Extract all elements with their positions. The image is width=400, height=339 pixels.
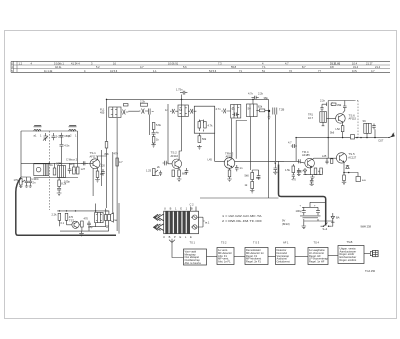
wire osc top (36, 163, 78, 168)
svg-text:AF 1: AF 1 (283, 241, 289, 245)
AGC box (194, 106, 214, 133)
svg-text:S2: S2 (179, 108, 183, 112)
svg-text:4.7: 4.7 (288, 141, 292, 145)
wire TS5 base line (312, 158, 337, 160)
svg-text:TS.2: TS.2 (171, 150, 178, 154)
svg-text:AF117: AF117 (90, 155, 98, 159)
capacitor C11 on top rail (176, 88, 187, 106)
resistor R9 inside (198, 122, 201, 129)
wire audio feed down (274, 115, 276, 162)
svg-text:2 = MW·ML·FM·TF·OM: 2 = MW·ML·FM·TF·OM (222, 219, 262, 223)
svg-text:S3: S3 (232, 107, 236, 111)
capacitor C3 150p (60, 133, 71, 140)
wire battery bottom (304, 215, 333, 223)
capacitor C25 (87, 221, 91, 227)
svg-text:Afst. 1e F1: Afst. 1e F1 (218, 259, 231, 263)
capacitor C18 (257, 173, 261, 180)
resistor R15 det load (245, 173, 254, 180)
diode D2 bias (297, 168, 307, 175)
svg-text:10.4: 10.4 (352, 61, 358, 65)
svg-text:50µ: 50µ (256, 176, 261, 180)
wire det to junction (256, 110, 268, 112)
svg-text:AF115: AF115 (349, 117, 357, 121)
filter FL1 block (100, 107, 121, 117)
svg-text:9.7k: 9.7k (352, 69, 358, 73)
svg-text:1 = LW·GW·GO·MF·TA: 1 = LW·GW·GO·MF·TA (222, 214, 262, 218)
resistor R20 TS5 (342, 173, 346, 185)
wire osc chain to line (58, 178, 60, 181)
block TS-B (338, 240, 364, 264)
capacitor C5 (57, 187, 61, 192)
svg-text:T.2B: T.2B (279, 108, 284, 112)
coupling parts TS4-TS5 (322, 154, 333, 164)
ground battery (302, 223, 307, 229)
resistor R1 (50, 163, 56, 175)
trimmer capacitor CT1 (191, 215, 203, 219)
oscillator coil block L4 (56, 161, 66, 177)
antenna (169, 239, 184, 258)
FM coil block S5 (308, 112, 327, 126)
resistor R29 TS4 input bias (285, 164, 295, 179)
svg-text:150p: 150p (64, 134, 70, 138)
svg-text:S4: S4 (248, 107, 252, 111)
block TS1 (184, 241, 207, 266)
vertical rail pair x124 (113, 118, 117, 231)
resistor R23 (58, 213, 61, 220)
svg-text:4.7n: 4.7n (248, 92, 254, 96)
dashed FM tuning link (354, 101, 358, 138)
svg-text:S2: S2 (56, 161, 60, 165)
svg-text:TS.1: TS.1 (90, 151, 97, 155)
wire FM top rail (328, 100, 354, 102)
svg-text:4.7: 4.7 (140, 65, 144, 69)
svg-text:470: 470 (69, 215, 74, 219)
gang vane 2 (170, 211, 173, 234)
svg-text:100µ: 100µ (296, 209, 302, 213)
potentiometer R28 (152, 165, 160, 176)
transistor TS1 (88, 151, 100, 169)
svg-text:1.1: 1.1 (153, 69, 157, 73)
transistor TS2 (171, 150, 182, 168)
resistor R21 TS4 bias (314, 168, 323, 175)
wire TS1 collector up (98, 99, 107, 208)
wire pot to heavy rail (19, 185, 32, 188)
svg-text:TS 1: TS 1 (190, 241, 196, 245)
svg-text:1.5k: 1.5k (285, 168, 291, 172)
svg-text:Geluidverst: Geluidverst (277, 259, 290, 263)
ferrite rod coil L1 (34, 126, 43, 138)
svg-text:10.7: 10.7 (308, 116, 314, 120)
transistor TS5 (336, 152, 356, 163)
svg-text:L52: L52 (336, 127, 341, 131)
wire TS1-TS2 (207, 256, 218, 258)
svg-text:Regel. eindtrst: Regel. eindtrst (340, 258, 357, 262)
table line 2 (11, 64, 390, 66)
resistor R25 (81, 221, 84, 227)
block TS4 (308, 241, 328, 265)
svg-text:L45: L45 (208, 158, 213, 162)
capacitor C26 collector (343, 101, 347, 113)
wire det line down (295, 138, 297, 162)
svg-text:82k: 82k (105, 152, 110, 156)
svg-text:S+2: S+2 (323, 227, 328, 231)
wire output top rail (57, 210, 108, 212)
svg-text:5 2: 5 2 (96, 65, 100, 69)
connector stub right of TS5 (355, 173, 366, 183)
svg-text:2.2k: 2.2k (52, 213, 58, 217)
resistor R16 det load2 (245, 180, 255, 194)
svg-text:10.06.91: 10.06.91 (168, 61, 179, 65)
svg-text:9WA 238: 9WA 238 (361, 224, 372, 228)
electrolytic C24 (314, 204, 320, 215)
output transformer T1 (95, 212, 103, 222)
svg-text:TS7: TS7 (69, 219, 74, 223)
svg-text:TCA 150: TCA 150 (365, 269, 376, 273)
wire AGC to TS3 base (215, 133, 226, 161)
diode D4 TS5 (346, 166, 349, 169)
svg-text:470: 470 (292, 178, 297, 182)
svg-text:2-22p: 2-22p (56, 134, 63, 138)
oscillator coil block L3 (31, 164, 49, 181)
svg-text:7.3: 7.3 (218, 61, 222, 65)
wire TSB to plug (364, 253, 370, 255)
capacitor C13 output (188, 109, 196, 114)
table row2 text (55, 65, 381, 69)
svg-text:T S 3: T S 3 (253, 241, 260, 245)
svg-text:1.75n: 1.75n (176, 88, 183, 92)
svg-text:TS-B: TS-B (347, 240, 353, 244)
gang vane 5 (183, 211, 186, 234)
svg-text:C.Wxxx 2: C.Wxxx 2 (66, 158, 78, 162)
wire TS2 emitter chain (178, 168, 180, 170)
parts table (11, 61, 390, 73)
svg-text:100p: 100p (64, 180, 70, 184)
wire TS1 base bias down (92, 168, 94, 196)
wire FM vertical feed (327, 101, 329, 159)
gang rotor chevron 2 (154, 224, 164, 230)
capacitor C34 audio feed ground (273, 163, 277, 175)
IF transformer S3 (231, 105, 241, 119)
svg-text:4.7n: 4.7n (216, 107, 222, 111)
svg-text:L27: L27 (81, 167, 86, 171)
resistor R12 TS2 emitter (178, 170, 187, 177)
connector cluster MP (351, 135, 362, 139)
svg-text:179: 179 (14, 178, 19, 182)
capacitor C17 TS3 (235, 165, 243, 171)
wire TS3-AF1 (268, 256, 276, 258)
heavy supply wire (279, 165, 326, 226)
svg-text:41 34 4: 41 34 4 (71, 61, 80, 65)
svg-text:D27: D27 (379, 138, 384, 142)
wire bottom ground rail (200, 197, 279, 199)
capacitor C35 S3 bottom (235, 113, 239, 117)
wire S4 secondary down (250, 117, 252, 170)
wire TS4-TSB (328, 255, 338, 257)
resistor R14 TS3 emitter (227, 168, 232, 181)
svg-text:8.7: 8.7 (302, 65, 306, 69)
wire S3 secondary down to TS3 (231, 119, 233, 159)
wire rail x168 (167, 104, 169, 150)
svg-text:41 5.6: 41 5.6 (110, 69, 118, 73)
ratio detector coil block S6 (363, 119, 372, 138)
svg-text:21 27: 21 27 (366, 61, 373, 65)
vertical rail pair left (101, 150, 103, 186)
block TS3 (245, 241, 268, 265)
svg-text:S6: S6 (363, 119, 367, 123)
svg-text:1.25: 1.25 (146, 169, 152, 173)
svg-text:1.2: 1.2 (19, 61, 23, 65)
svg-text:5 10kk 1: 5 10kk 1 (54, 61, 64, 65)
capacitor C9 (28, 179, 35, 185)
cluster R/C pair (139, 99, 154, 114)
svg-text:10µ: 10µ (88, 225, 93, 229)
resistor R19 TS6 emitter (336, 123, 344, 138)
svg-text:Regel. 1e HF: Regel. 1e HF (309, 259, 325, 263)
svg-text:AF117: AF117 (226, 155, 234, 159)
svg-text:39k: 39k (337, 103, 342, 107)
resistor R30 in speaker line (116, 158, 119, 166)
wire TS1 emitter (97, 168, 99, 171)
wire bottom signal line (21, 162, 88, 164)
capacitor C4 (68, 166, 77, 174)
table row1 text (19, 61, 374, 65)
table left column (11, 61, 17, 72)
wire TS3 to TS4 signal (235, 161, 305, 163)
svg-text:Afst. te beurta: Afst. te beurta (185, 261, 202, 265)
capacitor C16 TS2 (185, 168, 189, 175)
svg-text:5k6: 5k6 (245, 174, 250, 178)
svg-text:2.2k: 2.2k (258, 92, 264, 96)
capacitor C7 (101, 169, 105, 176)
svg-text:U B 1 E 1 B: U B 1 E 1 B (164, 207, 194, 211)
node dots rail (59, 210, 95, 212)
gang vane 3 (174, 211, 177, 234)
coupling capacitor C6 (81, 161, 88, 165)
svg-text:C 2: C 2 (190, 203, 195, 207)
ground TS1 emitter (95, 178, 100, 183)
IF transformer S2 (178, 105, 188, 116)
wire vertical rail x149.5 (149, 115, 151, 136)
svg-text:AF185: AF185 (302, 153, 310, 157)
wire output bottom rail (60, 221, 109, 232)
wire pot top connections (21, 177, 31, 179)
svg-text:U B P E L E: U B P E L E (163, 235, 193, 239)
svg-text:5.6: 5.6 (183, 65, 187, 69)
wire det loads top (252, 170, 258, 173)
resistor R22 TS4 bias2 (320, 168, 323, 175)
svg-text:AF116: AF116 (171, 154, 179, 158)
resistor chain R7 (152, 123, 162, 136)
wire diode to switch (302, 202, 333, 226)
svg-text:56k: 56k (202, 137, 207, 141)
block TS2 (217, 241, 234, 265)
capacitor C36 4.5n (60, 140, 70, 164)
node junction dots on input line (49, 162, 60, 164)
svg-text:21.4: 21.4 (375, 65, 381, 69)
svg-text:L25: L25 (322, 154, 327, 158)
ground output (79, 231, 84, 236)
svg-text:9.8: 9.8 (330, 65, 334, 69)
transistor TS3 (224, 151, 235, 168)
resistor R31 in det line (259, 109, 264, 112)
node dot rail/TS1 (107, 98, 254, 100)
wire columns down (59, 220, 105, 231)
resistor R6 above filter (123, 104, 128, 106)
svg-text:7.1: 7.1 (262, 65, 266, 69)
switch S1 (321, 223, 332, 231)
resistor R24 (65, 213, 73, 220)
dashed mechanical link to tuning gang (48, 131, 50, 210)
volume potentiometer R5 (14, 178, 26, 185)
table line 3 (11, 68, 390, 70)
svg-text:11 1.2k: 11 1.2k (44, 69, 53, 73)
wire supply junction up (270, 161, 284, 164)
svg-text:4.7: 4.7 (119, 160, 123, 164)
output plug (370, 250, 378, 256)
trimmer capacitor C1 (43, 133, 48, 141)
ground TS2 (177, 177, 182, 182)
svg-text:2.2k: 2.2k (140, 99, 146, 103)
resistor R2 (73, 167, 79, 174)
capacitor C20 on feed (320, 99, 342, 111)
capacitor C30 (159, 171, 162, 176)
gang outline (164, 211, 199, 234)
node junction det (268, 110, 270, 112)
wire supply top rail (107, 98, 269, 100)
resistor R3 vertical chain (58, 180, 67, 187)
wire TS5 emitter down (344, 162, 355, 173)
wire TS2-TS3 (234, 256, 245, 258)
svg-text:TS 4: TS 4 (314, 241, 320, 245)
gang vane 6 (187, 211, 190, 234)
gang vane 4 (178, 211, 181, 234)
resistor R4 emitter (96, 171, 103, 178)
resistor R26 right of transformer (105, 215, 107, 221)
capacitor C21 fm (372, 124, 376, 138)
svg-text:TS 2: TS 2 (221, 241, 227, 245)
trimmer output bracket (203, 217, 205, 227)
wire left rail of input box (20, 131, 22, 177)
wire FM audio line (296, 137, 387, 139)
svg-text:4.7: 4.7 (285, 61, 289, 65)
resistor R8 lower (151, 136, 159, 148)
svg-text:5.6k: 5.6k (156, 123, 162, 127)
svg-text:5k6: 5k6 (330, 131, 335, 135)
transistor TS7 (69, 219, 79, 229)
wire AF1-TS4 (295, 256, 308, 258)
svg-text:BA: BA (336, 216, 340, 220)
electrolytic C23 (296, 204, 306, 215)
battery B1 (282, 216, 321, 226)
svg-text:220: 220 (101, 164, 106, 168)
resistor R13 base divider (172, 170, 175, 177)
coupling caps C10 (121, 110, 140, 115)
transistor TS4 (302, 150, 314, 168)
heavy chassis wire down-left and along bottom (16, 178, 116, 236)
svg-text:(6F22): (6F22) (282, 222, 290, 226)
capacitor C14 input (221, 109, 230, 114)
svg-text:a.a: a.a (362, 179, 366, 182)
ground TS4 cluster (305, 166, 321, 179)
svg-text:4.7k: 4.7k (208, 124, 214, 128)
wire transformer top to upper row (96, 203, 119, 234)
wire osc bottom (34, 177, 78, 179)
capacitor C31 TS4 input (297, 168, 301, 176)
resistor R10 inside (204, 122, 207, 129)
svg-text:55.8: 55.8 (231, 65, 237, 69)
capacitor C8 (25, 179, 29, 185)
ground (57, 192, 62, 196)
svg-text:4.7: 4.7 (371, 69, 375, 73)
diode D3 (331, 213, 340, 222)
gang rotor chevron 1 (154, 214, 164, 220)
capacitor C33 det pair (273, 108, 285, 115)
svg-text:31.31.91: 31.31.91 (330, 61, 341, 65)
table line 1 (11, 60, 390, 62)
capacitor C2 2-22p (52, 133, 63, 140)
trimmer capacitor CT2 (191, 225, 203, 229)
table line 4 (11, 71, 390, 73)
capacitor C22 fm rail down (310, 178, 314, 186)
transistor TS6 (327, 113, 357, 123)
wire TS2 collector up to S3 (179, 116, 181, 159)
node dots FM line (296, 137, 375, 139)
wire TS3 collector up (236, 121, 247, 159)
svg-text:AC127: AC127 (348, 155, 356, 159)
table row3 text (44, 69, 375, 73)
detector transformer S4 (247, 104, 258, 117)
svg-text:2.2n: 2.2n (320, 99, 326, 103)
block AF1 (276, 241, 296, 265)
detector cluster caps on rail (248, 92, 264, 106)
node dot audio feed (274, 162, 276, 164)
svg-text:470: 470 (114, 152, 119, 156)
svg-text:470: 470 (84, 217, 89, 221)
svg-text:42 4L: 42 4L (55, 65, 62, 69)
wire AGC rail down x268.5 (268, 99, 270, 198)
svg-text:455: 455 (100, 111, 105, 115)
ferrite rod coil L2 (69, 126, 78, 138)
svg-text:31.4: 31.4 (353, 65, 359, 69)
svg-text:0.1: 0.1 (61, 221, 65, 225)
earphone jack (379, 133, 395, 143)
capacitor C32 TS2 base (163, 161, 169, 166)
wire top rail of input box (21, 131, 78, 163)
svg-text:ma: ma (113, 219, 117, 222)
resistor R11 below AGC box (197, 133, 207, 149)
svg-text:te.1: te.1 (205, 221, 210, 225)
AGC arrow below junction (268, 112, 271, 119)
wire speaker top (106, 211, 109, 215)
capacitor C27 volume feed (288, 141, 297, 148)
capacitor C12 input (170, 109, 178, 114)
svg-text:1N87: 1N87 (297, 170, 304, 174)
resistor R32 on collector rail (105, 142, 108, 149)
svg-text:54 5.6: 54 5.6 (209, 69, 217, 73)
svg-text:4.5n: 4.5n (64, 144, 70, 148)
svg-text:Regel. 2e F1: Regel. 2e F1 (246, 259, 261, 263)
gang vane 1 (165, 211, 168, 234)
wire S2 secondary to TS2 base (168, 150, 172, 164)
svg-text:38p: 38p (264, 96, 269, 100)
loudspeaker LS1 (108, 213, 118, 222)
capacitor C28 TS4 base (299, 159, 301, 163)
svg-text:82k: 82k (258, 105, 263, 109)
